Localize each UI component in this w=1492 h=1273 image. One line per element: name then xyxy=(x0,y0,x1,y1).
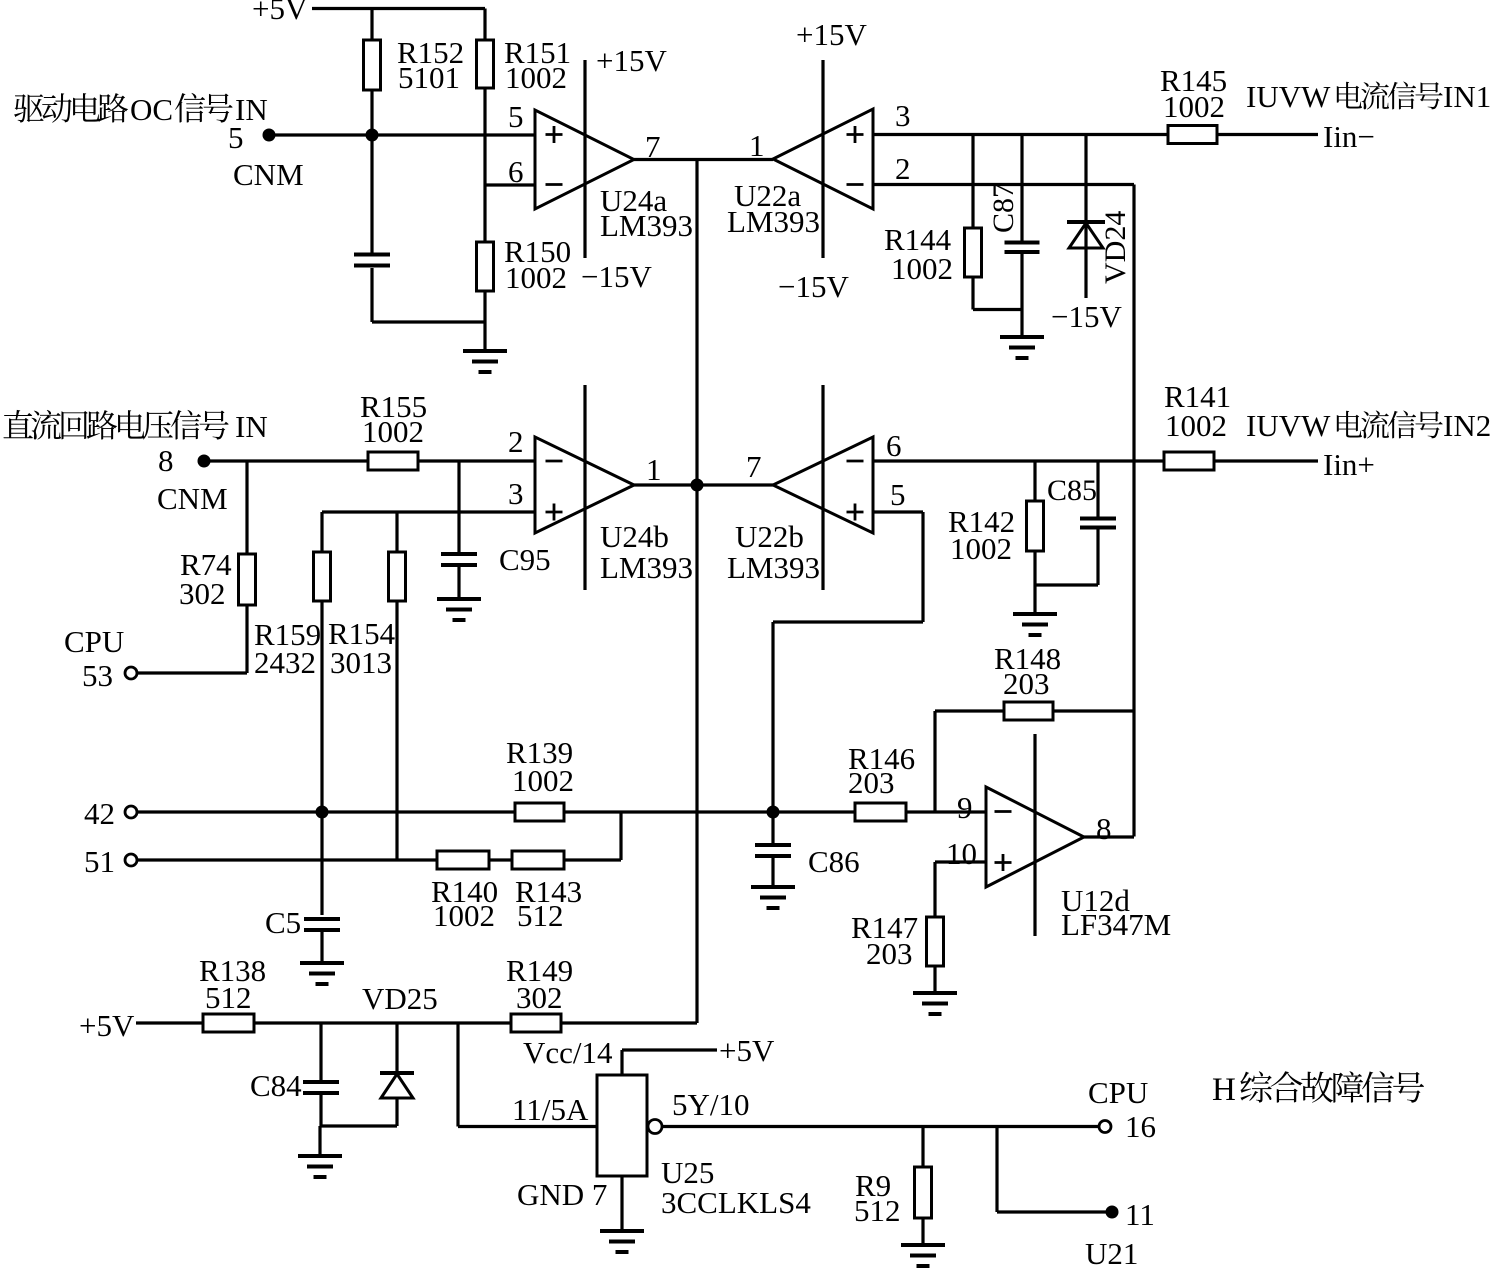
svg-text:1002: 1002 xyxy=(512,763,574,798)
svg-text:C95: C95 xyxy=(499,542,551,577)
svg-text:IUVW: IUVW xyxy=(1246,408,1331,443)
svg-text:1002: 1002 xyxy=(505,260,567,295)
svg-text:LM393: LM393 xyxy=(600,550,693,585)
svg-text:3CCLKLS4: 3CCLKLS4 xyxy=(661,1185,811,1220)
svg-text:5: 5 xyxy=(228,120,244,155)
svg-text:LM393: LM393 xyxy=(727,204,820,239)
svg-text:5: 5 xyxy=(508,99,524,134)
svg-text:Iin+: Iin+ xyxy=(1323,447,1375,482)
svg-text:LF347M: LF347M xyxy=(1061,907,1171,942)
svg-text:203: 203 xyxy=(1003,666,1050,701)
svg-text:1002: 1002 xyxy=(362,414,424,449)
svg-text:GND 7: GND 7 xyxy=(517,1177,607,1212)
svg-text:C84: C84 xyxy=(250,1068,302,1103)
svg-text:CPU: CPU xyxy=(1088,1075,1148,1110)
svg-text:C86: C86 xyxy=(808,844,860,879)
svg-text:11/5A: 11/5A xyxy=(512,1092,589,1127)
svg-text:U24b: U24b xyxy=(600,519,669,554)
svg-text:5Y/10: 5Y/10 xyxy=(672,1087,750,1122)
svg-text:C87: C87 xyxy=(987,183,1020,233)
svg-text:512: 512 xyxy=(517,898,564,933)
svg-text:42: 42 xyxy=(84,796,115,831)
svg-text:1002: 1002 xyxy=(505,60,567,95)
svg-text:+15V: +15V xyxy=(596,43,667,78)
svg-text:CNM: CNM xyxy=(157,481,228,516)
svg-text:VD24: VD24 xyxy=(1099,211,1132,284)
svg-text:51: 51 xyxy=(84,844,115,879)
svg-text:IN: IN xyxy=(235,409,268,444)
svg-text:LM393: LM393 xyxy=(600,208,693,243)
svg-text:3: 3 xyxy=(895,98,911,133)
svg-text:1002: 1002 xyxy=(891,251,953,286)
svg-text:512: 512 xyxy=(854,1193,901,1228)
svg-text:U22b: U22b xyxy=(735,519,804,554)
svg-text:8: 8 xyxy=(1096,811,1112,846)
svg-text:8: 8 xyxy=(158,443,174,478)
svg-text:LM393: LM393 xyxy=(727,550,820,585)
svg-text:VD25: VD25 xyxy=(362,981,438,1016)
svg-text:+5V: +5V xyxy=(252,0,308,26)
svg-text:1002: 1002 xyxy=(433,898,495,933)
svg-text:2: 2 xyxy=(508,424,524,459)
svg-text:6: 6 xyxy=(886,428,902,463)
svg-text:9: 9 xyxy=(957,790,973,825)
svg-text:+15V: +15V xyxy=(796,17,867,52)
svg-text:6: 6 xyxy=(508,154,524,189)
svg-text:C5: C5 xyxy=(265,905,301,940)
svg-text:OC: OC xyxy=(130,92,173,127)
svg-text:CPU: CPU xyxy=(64,624,124,659)
svg-text:IUVW: IUVW xyxy=(1246,79,1331,114)
svg-text:3: 3 xyxy=(508,476,524,511)
svg-text:C85: C85 xyxy=(1047,474,1097,507)
svg-text:−15V: −15V xyxy=(1051,299,1122,334)
svg-text:1002: 1002 xyxy=(1165,408,1227,443)
svg-text:1002: 1002 xyxy=(950,531,1012,566)
svg-text:3013: 3013 xyxy=(330,645,392,680)
svg-text:CNM: CNM xyxy=(233,157,304,192)
svg-text:1: 1 xyxy=(646,452,662,487)
svg-text:7: 7 xyxy=(746,449,762,484)
svg-text:1: 1 xyxy=(749,128,765,163)
svg-text:512: 512 xyxy=(205,980,252,1015)
svg-text:IN1: IN1 xyxy=(1443,79,1491,114)
svg-text:2: 2 xyxy=(895,151,911,186)
svg-text:Iin−: Iin− xyxy=(1323,119,1375,154)
svg-text:Vcc/14: Vcc/14 xyxy=(523,1035,613,1070)
svg-text:+5V: +5V xyxy=(79,1008,135,1043)
svg-text:53: 53 xyxy=(82,658,113,693)
svg-text:7: 7 xyxy=(645,129,661,164)
svg-text:+5V: +5V xyxy=(719,1033,775,1068)
svg-text:−15V: −15V xyxy=(778,269,849,304)
svg-text:16: 16 xyxy=(1125,1109,1156,1144)
svg-text:IN2: IN2 xyxy=(1443,408,1491,443)
svg-text:H: H xyxy=(1212,1072,1236,1108)
svg-text:302: 302 xyxy=(179,576,226,611)
svg-text:10: 10 xyxy=(946,836,977,871)
svg-text:203: 203 xyxy=(866,936,913,971)
svg-text:2432: 2432 xyxy=(254,645,316,680)
svg-text:1002: 1002 xyxy=(1163,89,1225,124)
svg-text:5101: 5101 xyxy=(398,60,460,95)
svg-text:5: 5 xyxy=(890,477,906,512)
svg-text:302: 302 xyxy=(516,980,563,1015)
svg-text:203: 203 xyxy=(848,765,895,800)
svg-text:11: 11 xyxy=(1125,1197,1155,1232)
svg-text:−15V: −15V xyxy=(581,259,652,294)
svg-text:U21: U21 xyxy=(1085,1236,1138,1271)
